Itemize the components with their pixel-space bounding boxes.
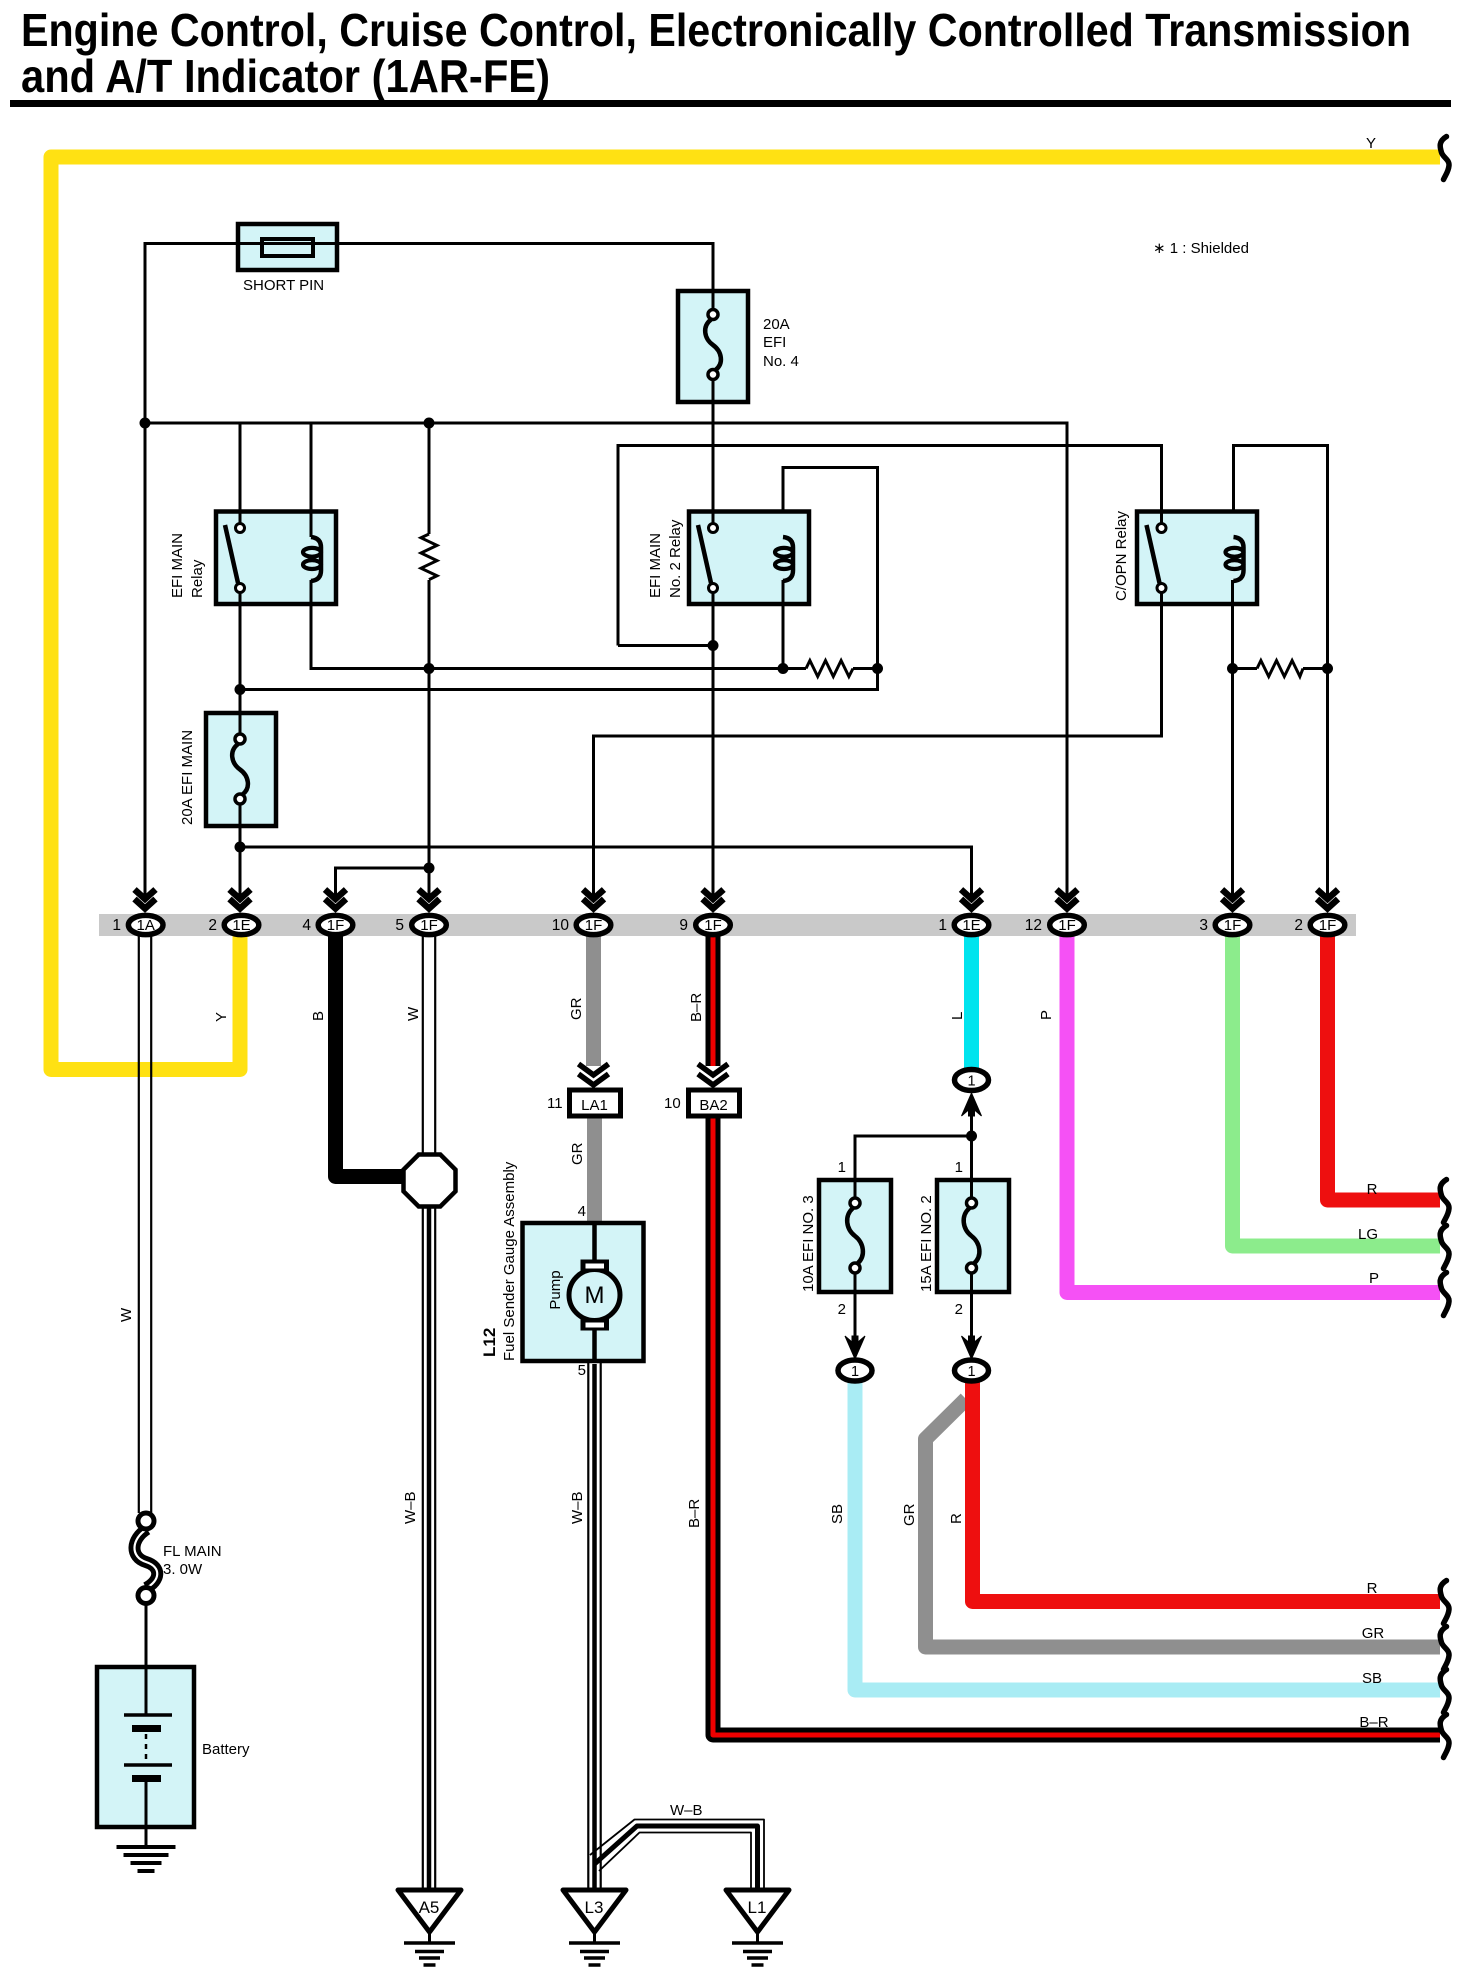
svg-text:4: 4 [302, 917, 311, 934]
svg-text:B–R: B–R [1359, 1714, 1388, 1731]
svg-text:GR: GR [568, 997, 585, 1020]
svg-text:LG: LG [1358, 1226, 1378, 1243]
svg-text:No. 4: No. 4 [763, 353, 799, 370]
svg-text:R: R [1367, 1580, 1378, 1597]
svg-text:10A EFI NO. 3: 10A EFI NO. 3 [800, 1195, 817, 1292]
svg-text:1F: 1F [704, 917, 722, 934]
svg-text:1F: 1F [585, 917, 603, 934]
svg-text:W–B: W–B [569, 1491, 586, 1524]
svg-text:1E: 1E [962, 917, 980, 934]
svg-text:3. 0W: 3. 0W [163, 1561, 203, 1578]
svg-text:FL MAIN: FL MAIN [163, 1543, 222, 1560]
svg-text:12: 12 [1025, 917, 1042, 934]
svg-text:1E: 1E [232, 917, 250, 934]
svg-text:L3: L3 [585, 1898, 604, 1917]
svg-text:1: 1 [967, 1364, 975, 1380]
svg-text:1: 1 [851, 1364, 859, 1380]
svg-text:Pump: Pump [547, 1270, 564, 1309]
svg-text:Relay: Relay [189, 559, 206, 598]
svg-text:EFI MAIN: EFI MAIN [169, 533, 186, 598]
svg-text:1: 1 [938, 917, 947, 934]
svg-text:Fuel Sender Gauge Assembly: Fuel Sender Gauge Assembly [501, 1161, 518, 1361]
svg-text:4: 4 [578, 1203, 586, 1220]
svg-text:10: 10 [664, 1095, 681, 1112]
svg-text:B: B [310, 1011, 327, 1021]
svg-text:15A EFI NO. 2: 15A EFI NO. 2 [918, 1195, 935, 1292]
svg-text:∗ 1 : Shielded: ∗ 1 : Shielded [1153, 240, 1249, 257]
svg-text:R: R [948, 1513, 965, 1524]
svg-text:20A: 20A [763, 316, 790, 333]
svg-text:11: 11 [547, 1095, 563, 1112]
svg-text:2: 2 [1294, 917, 1303, 934]
svg-text:9: 9 [679, 917, 688, 934]
svg-text:2: 2 [955, 1301, 963, 1318]
svg-text:W–B: W–B [670, 1802, 703, 1819]
svg-text:C/OPN Relay: C/OPN Relay [1113, 510, 1130, 601]
svg-text:L12: L12 [480, 1328, 499, 1357]
svg-text:1F: 1F [327, 917, 345, 934]
svg-text:P: P [1038, 1010, 1055, 1020]
svg-text:1F: 1F [1058, 917, 1076, 934]
svg-text:P: P [1369, 1270, 1379, 1287]
svg-text:GR: GR [1362, 1625, 1385, 1642]
svg-text:2: 2 [208, 917, 217, 934]
svg-text:BA2: BA2 [699, 1097, 727, 1114]
svg-text:W–B: W–B [402, 1491, 419, 1524]
svg-text:10: 10 [552, 917, 570, 934]
svg-text:SB: SB [1362, 1670, 1382, 1687]
svg-text:Y: Y [213, 1012, 230, 1022]
svg-text:Engine Control, Cruise Control: Engine Control, Cruise Control, Electron… [21, 4, 1411, 56]
svg-text:W: W [405, 1006, 422, 1021]
svg-text:20A EFI MAIN: 20A EFI MAIN [179, 730, 196, 825]
svg-text:B–R: B–R [686, 1499, 703, 1528]
svg-text:Battery: Battery [202, 1741, 250, 1758]
svg-text:M: M [585, 1282, 605, 1309]
svg-text:LA1: LA1 [581, 1097, 608, 1114]
svg-text:and A/T Indicator (1AR-FE): and A/T Indicator (1AR-FE) [21, 50, 550, 102]
svg-text:GR: GR [569, 1142, 586, 1165]
svg-text:No. 2 Relay: No. 2 Relay [667, 519, 684, 598]
svg-text:A5: A5 [419, 1898, 440, 1917]
svg-text:1: 1 [838, 1159, 846, 1176]
svg-text:2: 2 [838, 1301, 846, 1318]
svg-text:L1: L1 [748, 1898, 767, 1917]
svg-text:SHORT PIN: SHORT PIN [243, 277, 324, 294]
svg-text:5: 5 [578, 1362, 586, 1379]
svg-text:L: L [949, 1012, 966, 1020]
svg-text:5: 5 [395, 917, 404, 934]
svg-text:3: 3 [1199, 917, 1208, 934]
svg-text:1: 1 [955, 1159, 963, 1176]
svg-text:1F: 1F [1224, 917, 1242, 934]
svg-text:1F: 1F [1319, 917, 1337, 934]
svg-text:SB: SB [829, 1504, 846, 1524]
svg-text:1: 1 [967, 1074, 975, 1090]
svg-text:W: W [118, 1307, 135, 1322]
svg-text:1: 1 [112, 917, 121, 934]
svg-text:GR: GR [901, 1503, 918, 1526]
svg-text:R: R [1367, 1181, 1378, 1198]
svg-text:B–R: B–R [688, 993, 705, 1022]
svg-text:1F: 1F [420, 917, 438, 934]
svg-text:Y: Y [1366, 135, 1376, 152]
svg-text:EFI: EFI [763, 334, 786, 351]
svg-text:EFI MAIN: EFI MAIN [647, 533, 664, 598]
svg-text:1A: 1A [137, 917, 155, 934]
